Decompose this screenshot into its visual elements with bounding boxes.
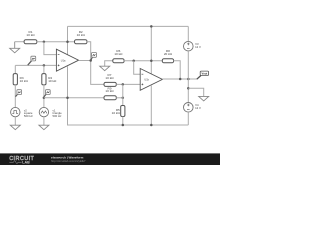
svg-text:10 kΩ: 10 kΩ (105, 89, 114, 93)
resistor R7 (104, 82, 116, 86)
svg-text:elexworck | Waveform: elexworck | Waveform (51, 155, 84, 159)
svg-text:20 kΩ: 20 kΩ (164, 52, 173, 56)
wire: node A row between R1 and R2 (37, 41, 75, 43)
junction: U1b bottom pin / rail (150, 124, 153, 127)
source v2 (square 500 Hz) (11, 107, 20, 116)
wire: V4 bottom to rail corner (187, 112, 189, 125)
wire: R7 to U1b plus input (116, 83, 140, 85)
svg-text:500 Hz: 500 Hz (53, 114, 62, 118)
wire: R2 right lead down to U1a output node (87, 42, 104, 85)
wire: v1 chain vertical top (43, 65, 45, 73)
wire: R8 right lead down to output (174, 61, 181, 79)
wire: V3 top lead (187, 26, 189, 41)
svg-text:10 kΩ: 10 kΩ (105, 76, 114, 80)
svg-text:U1b: U1b (144, 79, 149, 82)
junction: output / supply midpoint column (187, 78, 190, 81)
op-amp U1b (140, 69, 162, 91)
footer bar (0, 153, 220, 165)
wire: v1 bottom lead (43, 117, 45, 125)
junction: node A / U1a power riser (66, 40, 69, 43)
resistor R8 (162, 59, 173, 63)
resistor R5 (vertical) (121, 106, 125, 117)
svg-text:http://circuitlab.com/c/2ykdk7: http://circuitlab.com/c/2ykdk7 (51, 159, 86, 163)
wire: U1a bottom power pin (68, 66, 189, 125)
wire: U1a output (79, 60, 91, 62)
wire: drop to U1b inverting input (134, 61, 141, 74)
wire: ground stub right (188, 88, 203, 96)
wire: top feedback rail from node A to V3 (68, 25, 189, 27)
op-amp U1a (56, 49, 78, 71)
ground: G2 below v2 (10, 125, 20, 130)
resistor R1 (24, 40, 37, 44)
wire: V3 to V4 supply column (187, 51, 189, 102)
wire: R4 to v1 (43, 85, 45, 108)
junction: R9 / R5 riser (122, 97, 125, 100)
svg-text:10 kΩ: 10 kΩ (48, 79, 57, 83)
ground: G4 supply midpoint (199, 96, 209, 101)
wire: drop to U1a inverting input (44, 42, 57, 55)
svg-text:10 kΩ: 10 kΩ (20, 79, 29, 83)
svg-text:10 kΩ: 10 kΩ (77, 33, 86, 37)
ground: G1 at R1 left (10, 42, 20, 53)
svg-text:10 kΩ: 10 kΩ (26, 33, 35, 37)
junction: R9 row / U1a bottom power pin (66, 97, 69, 100)
junction: top rail / U1b riser (150, 25, 153, 28)
junction: R5 / bottom rail (122, 124, 125, 127)
svg-text:Vout: Vout (202, 72, 208, 76)
wire: U1a top power pin riser x=67.5 (67, 26, 69, 54)
junction: U1a output node (89, 59, 92, 62)
junction: R7 / R5 riser (122, 83, 125, 86)
junction: minus node / U1b power riser (150, 60, 153, 63)
source V3 (12 V) (184, 41, 194, 51)
wire: R1 left lead to ground (15, 41, 24, 43)
wire: U1b bottom power pin (150, 85, 152, 125)
source v1 (triangle 500 Hz) (39, 107, 48, 116)
wire: R9 row from v1 chain to U1b plus network (44, 97, 104, 99)
wire: U1b minus node row (124, 60, 162, 62)
wire: R6 ground stub (105, 61, 113, 66)
junction: minus node / drop to U1b (132, 60, 135, 63)
probe flag P3 on v2 chain (16, 90, 22, 97)
probe flag P4 on v1 chain (44, 90, 50, 97)
wire: R5 riser (122, 84, 124, 105)
wire: v2 chain vertical top (14, 65, 16, 73)
resistor R3 (vertical) (13, 74, 17, 85)
wire: R3 to v2 (14, 85, 16, 108)
svg-text:10 kΩ: 10 kΩ (114, 52, 123, 56)
flag Vout (197, 71, 209, 79)
junction: node A / drop to U1a inverting input (43, 40, 46, 43)
junction: v1 chain / R9 row (43, 97, 46, 100)
wire: U1a non-inverting input row (15, 64, 56, 66)
junction: supply column / ground stub (187, 87, 190, 90)
wire: R5 bottom to rail (122, 117, 124, 126)
source V4 (12 V) (184, 103, 194, 113)
wire: U1b output row to Vout (162, 78, 197, 80)
wire: v2 bottom lead (14, 117, 16, 125)
probe flag P1 on U1a plus input (28, 56, 36, 65)
svg-text:10 kΩ: 10 kΩ (112, 111, 121, 115)
wire: U1b top power pin riser x=151.3 (150, 26, 152, 74)
svg-text:500 Hz: 500 Hz (24, 114, 33, 118)
resistor R6 (113, 59, 124, 63)
ground: G3 below v1 (39, 125, 49, 130)
resistor R2 (75, 40, 88, 44)
resistor R9 (104, 96, 116, 100)
ground: G5 at R6 left (100, 66, 110, 71)
resistor R4 (vertical) (42, 74, 46, 85)
junction: plus input row / R4 chain (43, 64, 46, 67)
probe flag P2 on U1a output (91, 53, 97, 61)
svg-text:U1a: U1a (61, 59, 66, 62)
svg-text:12 V: 12 V (195, 45, 201, 49)
svg-text:LAB: LAB (22, 161, 30, 165)
wire: R9 right lead (116, 97, 123, 99)
svg-text:12 V: 12 V (195, 106, 201, 110)
junction: output / R8 drop (179, 78, 182, 81)
